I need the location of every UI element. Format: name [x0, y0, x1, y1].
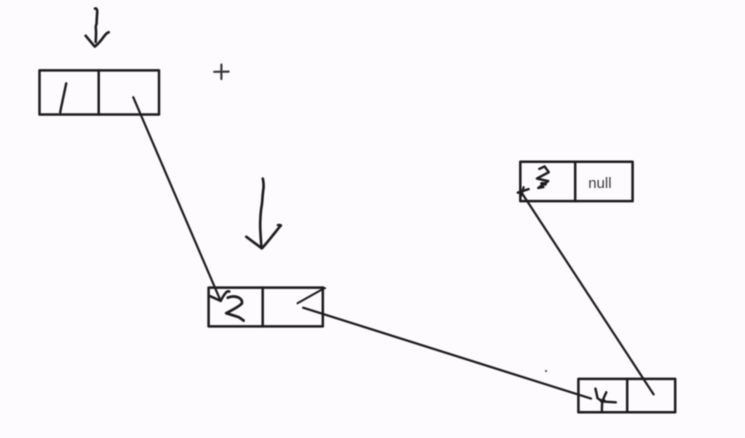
svg-text:null: null [588, 175, 611, 192]
